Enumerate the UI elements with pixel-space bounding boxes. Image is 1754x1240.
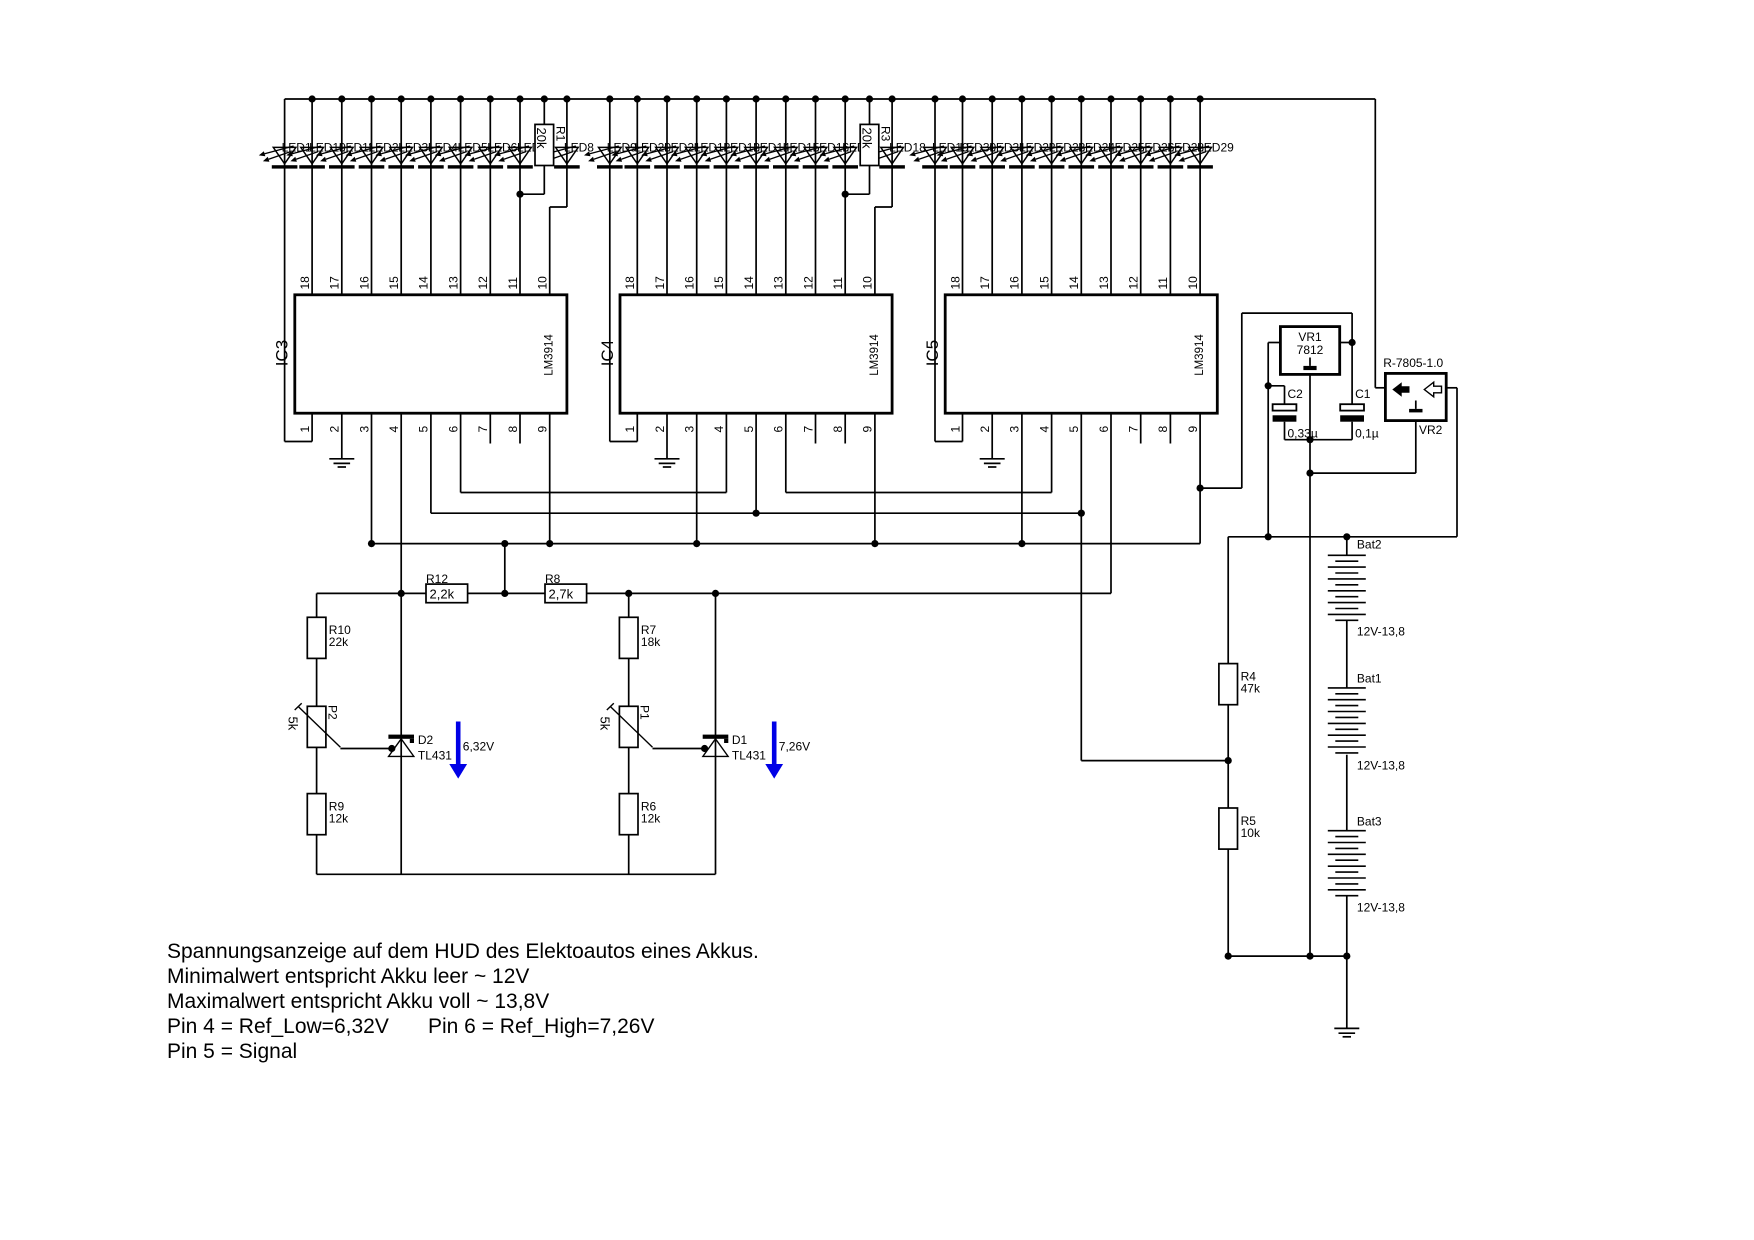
wire LED column pin14 xyxy=(755,99,757,295)
label LED29 xyxy=(1197,140,1234,154)
pin number 16 top xyxy=(357,276,371,290)
svg-text:6,32V: 6,32V xyxy=(463,740,494,754)
pin number 14 top xyxy=(1067,276,1081,290)
LED LED15 xyxy=(760,146,799,169)
pin number 2 bottom xyxy=(978,426,992,433)
wire VR1 out lead xyxy=(1340,342,1352,344)
ground symbol xyxy=(329,459,354,467)
wire pin6 drop xyxy=(785,413,787,492)
wire P2 to R9 xyxy=(316,748,318,794)
label LED10 xyxy=(309,140,346,154)
svg-text:20k: 20k xyxy=(859,128,874,149)
junction bus dot xyxy=(398,95,405,102)
svg-text:LED8: LED8 xyxy=(564,140,594,154)
pin number 9 bottom xyxy=(536,426,550,433)
wire VR1 branch riser xyxy=(1241,313,1243,488)
pin number 4 bottom xyxy=(1037,426,1051,433)
note line 3 xyxy=(167,990,549,1013)
pin number 3 bottom xyxy=(357,426,371,433)
pin number 17 top xyxy=(653,276,667,290)
svg-text:6: 6 xyxy=(446,426,460,433)
label LED2 xyxy=(369,140,399,154)
label R6 xyxy=(641,800,657,814)
op-amp IC5 LM3914 box xyxy=(945,295,1217,413)
label LED16 xyxy=(813,140,850,154)
wire pin6 drop to row end xyxy=(1110,413,1112,593)
LED LED30 xyxy=(937,146,976,169)
label Bat3 voltage xyxy=(1357,901,1405,915)
pin number 14 top xyxy=(417,276,431,290)
LED LED22 xyxy=(996,146,1035,169)
svg-text:20k: 20k xyxy=(534,128,549,149)
label LED15 xyxy=(783,140,820,154)
junction R4/R5 signal node xyxy=(1225,757,1232,764)
junction bus dot xyxy=(931,95,938,102)
svg-text:13: 13 xyxy=(1097,276,1111,290)
resistor R6 12k xyxy=(619,794,638,835)
wire pin9 drop xyxy=(874,413,876,543)
svg-text:P1: P1 xyxy=(638,705,652,720)
label R1 name xyxy=(553,126,567,142)
wire VR2 gnd lead xyxy=(1310,421,1416,474)
label D2 xyxy=(418,733,434,747)
svg-text:16: 16 xyxy=(1008,276,1022,290)
pin number 17 top xyxy=(978,276,992,290)
LED LED20 xyxy=(612,146,651,169)
LED LED2 xyxy=(346,146,385,169)
svg-text:10: 10 xyxy=(861,276,875,290)
svg-text:4: 4 xyxy=(712,426,726,433)
wire R10 to P2 xyxy=(316,658,318,706)
pin number 6 bottom xyxy=(446,426,460,433)
pin number 18 top xyxy=(623,276,637,290)
wire VR2 out lead xyxy=(1446,388,1457,537)
pin number 4 bottom xyxy=(712,426,726,433)
svg-text:TL431: TL431 xyxy=(732,749,766,763)
label P2 xyxy=(325,705,339,720)
junction VR1 in / C2 xyxy=(1265,382,1272,389)
pin number 11 top xyxy=(831,277,845,290)
wire R3 bottom lead xyxy=(845,166,869,195)
junction wiper to D1 ref xyxy=(701,745,708,752)
svg-text:IC4: IC4 xyxy=(598,340,617,366)
svg-text:D1: D1 xyxy=(732,733,748,747)
label LED11 xyxy=(339,140,375,154)
wire Bat1-Bat3 link xyxy=(1346,755,1348,831)
annotation arrow 6,32V xyxy=(449,722,467,779)
svg-text:C2: C2 xyxy=(1288,387,1304,401)
pin number 13 top xyxy=(1097,276,1111,290)
wire pin2 to ground xyxy=(991,413,993,458)
svg-text:1: 1 xyxy=(623,426,637,433)
label R9 value xyxy=(329,812,349,826)
resistor R5 10k xyxy=(1219,808,1238,849)
svg-text:1: 1 xyxy=(298,426,312,433)
junction bus dot xyxy=(516,95,523,102)
junction bus dot xyxy=(1078,95,1085,102)
wire cap ground row xyxy=(1285,439,1353,441)
wire pin5 drop xyxy=(430,413,432,513)
label R4 xyxy=(1241,670,1257,684)
label VR1 7812 xyxy=(1297,343,1324,357)
svg-text:2,2k: 2,2k xyxy=(430,586,455,601)
capacitor C2 0,33u xyxy=(1273,404,1297,421)
label LED22 xyxy=(1019,140,1056,154)
label VR1 xyxy=(1298,330,1322,344)
svg-text:R12: R12 xyxy=(426,572,448,586)
junction pin5 on rail xyxy=(1078,510,1085,517)
svg-text:18k: 18k xyxy=(641,635,661,649)
wire pin9 drop xyxy=(549,413,551,543)
junction bus dot xyxy=(427,95,434,102)
label VR2 xyxy=(1419,423,1443,437)
wire C2 branch xyxy=(1268,386,1284,404)
svg-text:12k: 12k xyxy=(329,812,349,826)
label LED26 xyxy=(1138,140,1175,154)
note line 1 xyxy=(167,940,759,963)
voltage regulator VR1 7812 xyxy=(1280,327,1339,375)
LED LED16 xyxy=(790,146,829,169)
wire LED column pin13 xyxy=(460,99,462,295)
svg-text:9: 9 xyxy=(1186,426,1200,433)
svg-text:R1: R1 xyxy=(553,126,567,142)
note line 4b xyxy=(428,1015,655,1038)
svg-text:18: 18 xyxy=(623,276,637,290)
pin number 16 top xyxy=(1008,276,1022,290)
svg-text:16: 16 xyxy=(683,276,697,290)
LED LED9 xyxy=(584,146,623,169)
VR2 output arrow outline xyxy=(1424,382,1441,397)
label C1 value xyxy=(1355,427,1379,441)
wire LED column pin17 xyxy=(991,99,993,295)
label R12 value xyxy=(430,586,455,601)
wire row left segment xyxy=(317,592,426,594)
wire pin10 riser xyxy=(549,207,551,295)
junction bus dot at programming resistor xyxy=(541,95,548,102)
junction R3 to pin11 wire xyxy=(842,191,849,198)
svg-text:14: 14 xyxy=(1067,276,1081,290)
svg-text:5: 5 xyxy=(742,426,756,433)
label C2 value xyxy=(1288,427,1318,441)
wire LED column pin12 xyxy=(1140,99,1142,295)
label R10 value xyxy=(329,635,349,649)
svg-text:2: 2 xyxy=(653,426,667,433)
pin number 18 top xyxy=(948,276,962,290)
svg-text:5k: 5k xyxy=(286,717,301,731)
svg-text:10k: 10k xyxy=(1241,826,1261,840)
wire V+ rail pins3/9 xyxy=(372,543,1201,545)
junction bus dot xyxy=(663,95,670,102)
note line 5 xyxy=(167,1040,297,1063)
LED LED18 xyxy=(866,146,905,169)
label LED24 xyxy=(1078,140,1115,154)
label LED20 xyxy=(634,140,671,154)
wire LED column pin16 xyxy=(696,99,698,295)
junction bus dot xyxy=(959,95,966,102)
resistor R3 20k xyxy=(860,124,879,165)
wire V+ rail riser to pin9 node xyxy=(1199,488,1201,543)
wire pin4 drop xyxy=(1051,413,1053,492)
label LED3 xyxy=(398,140,428,154)
transistor D1 TL431 xyxy=(703,735,729,757)
junction bus dot xyxy=(989,95,996,102)
pin number 10 top xyxy=(1186,276,1200,290)
LED LED10 xyxy=(286,146,325,169)
label LED7 xyxy=(517,140,547,154)
wire LED column pin10 xyxy=(1199,99,1201,295)
junction pin4 on row xyxy=(398,590,405,597)
wire V+ bus drop to VR2 input xyxy=(1374,99,1376,388)
pin number 6 bottom xyxy=(1097,426,1111,433)
wire row right segment xyxy=(587,592,1111,594)
wire LED column pin11 xyxy=(519,99,521,295)
wire LED column pin11 xyxy=(844,99,846,295)
label LED25 xyxy=(1108,140,1145,154)
LED LED25 xyxy=(1085,146,1124,169)
wire LED column pin18 xyxy=(962,99,964,295)
label LED31 xyxy=(989,140,1026,154)
svg-text:2: 2 xyxy=(978,426,992,433)
junction pin9 on rail xyxy=(546,540,553,547)
wire LED column pin15 xyxy=(1051,99,1053,295)
svg-text:11: 11 xyxy=(1156,277,1170,290)
wire P1 to R6 xyxy=(628,748,630,794)
wire pin4 drop xyxy=(725,413,727,492)
junction bus dot xyxy=(1018,95,1025,102)
wire R3 top lead xyxy=(869,99,871,124)
svg-text:18: 18 xyxy=(298,276,312,290)
wire LED anode drop (pin1 LED) xyxy=(609,99,611,442)
junction bus dot xyxy=(606,95,613,102)
label IC5 xyxy=(923,340,942,366)
wire to main ground xyxy=(1346,956,1348,1028)
label LED21 xyxy=(664,140,701,154)
junction bus dot xyxy=(487,95,494,102)
label R12 xyxy=(426,572,448,586)
junction bus dot xyxy=(782,95,789,102)
voltage regulator VR2 R-7805-1.0 box xyxy=(1385,373,1446,420)
svg-text:12V-13,8: 12V-13,8 xyxy=(1357,901,1405,915)
svg-text:9: 9 xyxy=(536,426,550,433)
note line 4a xyxy=(167,1015,389,1038)
potentiometer P2 5k xyxy=(295,703,341,747)
junction bus dot xyxy=(812,95,819,102)
pin number 1 bottom xyxy=(298,426,312,433)
label LED14 xyxy=(753,140,790,154)
svg-text:5: 5 xyxy=(1067,426,1081,433)
wire pin1 hook horizontal xyxy=(285,441,313,443)
note line 2 xyxy=(167,965,529,988)
svg-text:47k: 47k xyxy=(1241,682,1261,696)
junction pin3 on rail xyxy=(368,540,375,547)
label 7,26V xyxy=(779,740,810,754)
svg-text:D2: D2 xyxy=(418,733,434,747)
junction bus dot xyxy=(723,95,730,102)
svg-text:LM3914: LM3914 xyxy=(1194,334,1206,376)
label LED28 xyxy=(1167,140,1204,154)
junction R1 to pin11 wire xyxy=(516,191,523,198)
wire VR1 out drop xyxy=(1351,313,1353,342)
junction battery bottom on ground rail xyxy=(1343,953,1350,960)
wire R1 top lead xyxy=(543,99,545,124)
LED LED17 xyxy=(819,146,858,169)
resistor R1 20k xyxy=(535,124,554,165)
pin number 11 top xyxy=(506,277,520,290)
pin number 5 bottom xyxy=(1067,426,1081,433)
pin number 7 bottom xyxy=(801,426,815,433)
junction VR1-in column on battery rail xyxy=(1265,533,1272,540)
pin8 stub xyxy=(519,413,521,443)
ground symbol main xyxy=(1334,1028,1359,1036)
LED LED12 xyxy=(671,146,710,169)
junction cap row / gnd column xyxy=(1306,436,1313,443)
svg-text:Maximalwert entspricht Akku vo: Maximalwert entspricht Akku voll ~ 13,8V xyxy=(167,990,549,1013)
svg-text:18: 18 xyxy=(948,276,962,290)
svg-text:4: 4 xyxy=(1037,426,1051,433)
pin number 8 bottom xyxy=(506,426,520,433)
svg-text:3: 3 xyxy=(357,426,371,433)
junction bus dot xyxy=(1107,95,1114,102)
pin7 stub xyxy=(489,413,491,443)
svg-text:Bat3: Bat3 xyxy=(1357,815,1382,829)
svg-text:15: 15 xyxy=(387,276,401,290)
LED LED29 xyxy=(1174,146,1213,169)
wire LED10 jog xyxy=(875,206,892,208)
svg-text:12: 12 xyxy=(1127,276,1141,290)
junction tap top xyxy=(501,540,508,547)
wire LED anode drop (pin1 LED) xyxy=(284,99,286,442)
svg-text:C1: C1 xyxy=(1355,387,1371,401)
resistor R10 22k xyxy=(307,617,326,658)
label C1 xyxy=(1355,387,1371,401)
LED LED11 xyxy=(316,146,355,169)
pin number 3 bottom xyxy=(1008,426,1022,433)
svg-text:7: 7 xyxy=(1127,426,1141,433)
wire R6 to bottom rail xyxy=(628,835,630,875)
wire VR1-in column to battery rail xyxy=(1267,386,1269,537)
svg-text:10: 10 xyxy=(1186,276,1200,290)
wire D1 cathode column xyxy=(715,593,717,874)
svg-text:LED29: LED29 xyxy=(1197,140,1234,154)
wire pin4 drop to divider row xyxy=(400,413,402,593)
wire LED column pin16 xyxy=(1021,99,1023,295)
wire pin3 drop xyxy=(696,413,698,543)
junction bus dot xyxy=(1048,95,1055,102)
wire R4 top lead xyxy=(1227,537,1229,664)
transistor D2 TL431 xyxy=(388,735,414,757)
LED LED24 xyxy=(1056,146,1095,169)
wire pin5 drop xyxy=(1080,413,1082,513)
svg-text:Pin 5 = Signal: Pin 5 = Signal xyxy=(167,1040,297,1063)
pin number 9 bottom xyxy=(861,426,875,433)
wire bottom ground rail xyxy=(1228,955,1347,957)
svg-text:13: 13 xyxy=(446,276,460,290)
svg-text:8: 8 xyxy=(506,426,520,433)
pin8 stub xyxy=(844,413,846,443)
label R8 value xyxy=(549,586,574,601)
label LED6 xyxy=(487,140,517,154)
wire Bat3 bottom lead xyxy=(1346,896,1348,956)
wire VR2 in lead xyxy=(1375,387,1385,389)
svg-text:7: 7 xyxy=(476,426,490,433)
junction bus dot xyxy=(368,95,375,102)
resistor R4 47k xyxy=(1219,664,1238,705)
wire pin5 drop xyxy=(755,413,757,513)
label P1 xyxy=(638,705,652,720)
wire pin5 signal rail xyxy=(431,512,1081,514)
wire P1 wiper xyxy=(653,748,708,750)
label LED4 xyxy=(428,140,458,154)
label IC3 xyxy=(273,340,292,366)
wire R1 bottom lead xyxy=(520,166,544,195)
wire pin1 hook vertical xyxy=(311,413,313,441)
junction bus dot xyxy=(563,95,570,102)
svg-text:LM3914: LM3914 xyxy=(544,334,556,376)
svg-text:IC3: IC3 xyxy=(273,340,292,366)
junction wiper to D2 ref xyxy=(388,745,395,752)
pin number 8 bottom xyxy=(831,426,845,433)
resistor R7 18k xyxy=(619,617,638,658)
label P1 value 5k xyxy=(598,717,613,731)
wire C1 bottom lead xyxy=(1351,422,1353,440)
pin number 15 top xyxy=(387,276,401,290)
label R3 value 20k xyxy=(859,128,874,149)
wire V+ rail tap to divider row xyxy=(504,544,506,594)
label R5 value xyxy=(1241,826,1261,840)
pin number 15 top xyxy=(1037,276,1051,290)
pin number 5 bottom xyxy=(742,426,756,433)
label R7 value xyxy=(641,635,661,649)
pin number 12 top xyxy=(1127,276,1141,290)
junction bus dot xyxy=(338,95,345,102)
svg-text:12: 12 xyxy=(801,276,815,290)
label LED17 xyxy=(842,140,879,154)
LED LED4 xyxy=(405,146,444,169)
label LED18 xyxy=(889,140,926,154)
label Bat2 voltage xyxy=(1357,625,1405,639)
svg-text:12V-13,8: 12V-13,8 xyxy=(1357,625,1405,639)
LED LED6 xyxy=(465,146,504,169)
svg-text:Pin 6 = Ref_High=7,26V: Pin 6 = Ref_High=7,26V xyxy=(428,1015,655,1038)
label R4 value xyxy=(1241,682,1261,696)
label LED30 xyxy=(960,140,997,154)
pin number 8 bottom xyxy=(1156,426,1170,433)
wire signal to R4/R5 divider xyxy=(1081,760,1228,762)
wire row to R7 xyxy=(628,593,630,617)
resistor R9 12k xyxy=(307,794,326,835)
pin number 5 bottom xyxy=(417,426,431,433)
junction VR1 out / C1 xyxy=(1349,339,1356,346)
junction bus dot xyxy=(842,95,849,102)
svg-text:VR1: VR1 xyxy=(1298,330,1322,344)
label Bat1 voltage xyxy=(1357,759,1405,773)
wire VR1 top path xyxy=(1242,312,1352,314)
junction bus dot xyxy=(457,95,464,102)
svg-text:9: 9 xyxy=(861,426,875,433)
wire C1 top lead xyxy=(1351,343,1353,405)
svg-text:R-7805-1.0: R-7805-1.0 xyxy=(1383,356,1443,370)
LED LED26 xyxy=(1115,146,1154,169)
svg-text:2,7k: 2,7k xyxy=(549,586,574,601)
wire LED column pin15 xyxy=(725,99,727,295)
junction battery top xyxy=(1343,533,1350,540)
svg-text:10: 10 xyxy=(536,276,550,290)
svg-text:15: 15 xyxy=(712,276,726,290)
label R6 value xyxy=(641,812,661,826)
svg-text:6: 6 xyxy=(1097,426,1111,433)
capacitor C1 0,1u xyxy=(1340,404,1364,421)
pin number 11 top xyxy=(1156,277,1170,290)
